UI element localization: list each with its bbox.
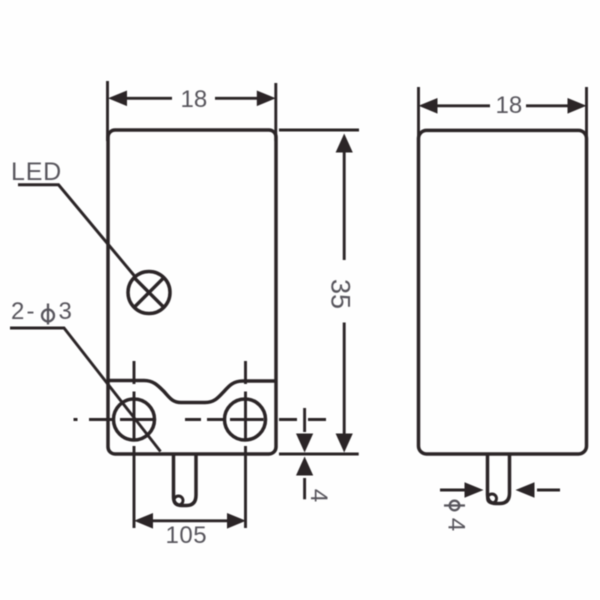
label 35 xyxy=(326,279,356,309)
centerline horizontal xyxy=(74,418,327,421)
label 105 xyxy=(166,522,208,549)
LED indicator circle xyxy=(128,272,170,314)
label 18 right xyxy=(496,92,523,119)
label phi4 digit xyxy=(443,518,470,531)
label 18 left xyxy=(181,86,208,113)
body outline left view xyxy=(108,130,276,454)
svg-text:18: 18 xyxy=(496,92,523,119)
flange profile line xyxy=(108,381,276,403)
dimension 4 (hole center to bottom) xyxy=(303,408,306,499)
svg-text:4: 4 xyxy=(305,489,332,502)
mounting hole left xyxy=(114,399,155,440)
svg-text:18: 18 xyxy=(181,86,208,113)
svg-text:LED: LED xyxy=(11,158,62,186)
label 4 xyxy=(305,489,332,502)
dimension 105 xyxy=(153,519,227,522)
label 2-phi3 xyxy=(11,298,72,325)
svg-text:3: 3 xyxy=(59,298,72,325)
svg-text:2: 2 xyxy=(11,298,24,325)
body outline right view xyxy=(419,130,587,454)
dimension 18 left view xyxy=(108,81,276,141)
label phi4 symbol xyxy=(444,501,465,511)
centerline vertical right hole xyxy=(244,361,247,528)
dimension 18 right view xyxy=(419,87,587,142)
svg-text:4: 4 xyxy=(443,518,470,531)
cable right view xyxy=(488,454,510,504)
leader line 2-phi3 xyxy=(10,328,161,452)
centerline vertical left hole xyxy=(133,361,136,528)
label LED xyxy=(11,158,62,186)
mounting hole right xyxy=(225,399,266,440)
LED leader line xyxy=(18,185,136,278)
svg-text:105: 105 xyxy=(166,522,208,549)
cable left view xyxy=(174,454,197,506)
svg-text:35: 35 xyxy=(326,279,356,309)
svg-text:-: - xyxy=(27,298,35,325)
dimension 35 right of left view xyxy=(279,130,359,454)
phi symbol of 2-phi3 xyxy=(42,304,54,325)
dimension phi4 cable arrows xyxy=(440,489,560,492)
